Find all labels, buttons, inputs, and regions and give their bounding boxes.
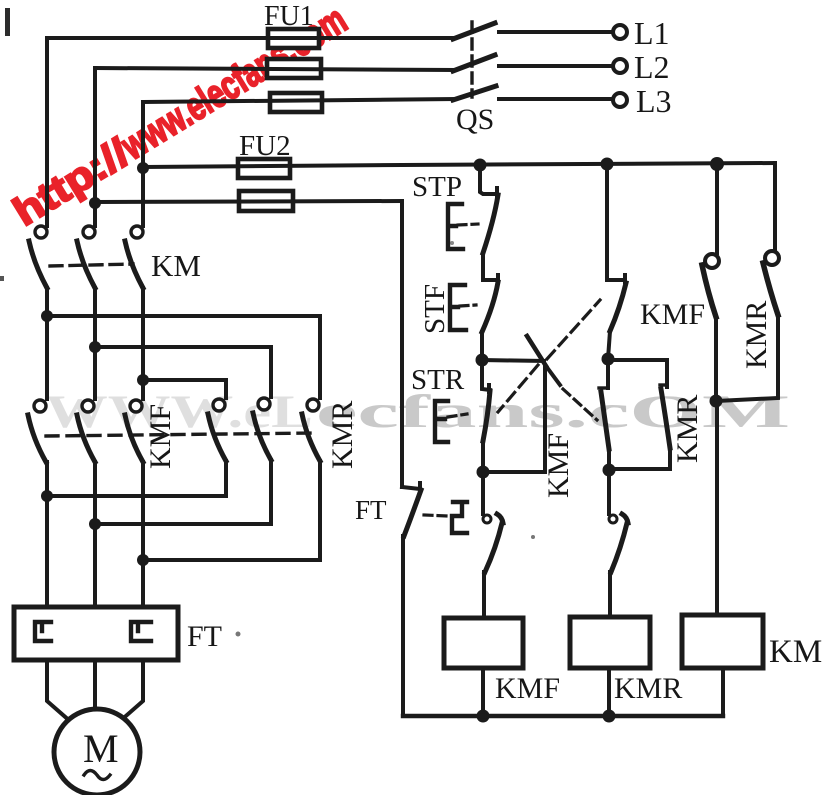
- svg-text:STF: STF: [419, 284, 451, 334]
- node join pole2: [89, 518, 101, 530]
- node B: [477, 466, 490, 479]
- contact branch B middle blade: [601, 392, 609, 449]
- contactor KM pole2 blade: [77, 241, 95, 288]
- wire STP to STF: [483, 253, 498, 282]
- switch QS blade 1: [453, 23, 495, 39]
- contactor KM pole2 terminal circle: [83, 226, 95, 238]
- switch QS blade 3: [453, 86, 496, 100]
- node bottom rail KMR: [603, 710, 616, 723]
- wire KMF pole1 down: [45, 462, 49, 607]
- wire node A to KMF aux branch: [482, 360, 544, 361]
- node rail branch B: [601, 158, 614, 171]
- contact branch B middle tick: [599, 386, 607, 389]
- contact KMF tall blade: [702, 265, 716, 317]
- motor M circle: [54, 709, 140, 795]
- wire KMR pole1 join: [47, 461, 226, 496]
- button STR linkage dashed: [448, 414, 467, 417]
- wire interlock to coil KMR: [608, 572, 612, 617]
- wire rail to STP: [480, 165, 497, 196]
- wire node C middle contact: [606, 359, 610, 388]
- contact FT control hook: [402, 483, 420, 489]
- svg-text:FU1: FU1: [264, 1, 314, 32]
- wire node D to KMF interlock: [607, 470, 611, 514]
- wire branch B to node C: [608, 331, 610, 359]
- contactor KMR pole3 circle: [307, 399, 319, 411]
- svg-text:http://: http://: [6, 131, 137, 235]
- contact KMR aux tick: [660, 383, 667, 386]
- switch QS linkage dashed: [470, 22, 473, 97]
- fuse FU1c body: [270, 93, 322, 112]
- wire rail to branch B contact: [607, 164, 625, 282]
- svg-text:KMR: KMR: [614, 672, 682, 705]
- svg-text:KMR: KMR: [671, 395, 704, 463]
- wire phase3 KM to KMF pole3: [141, 288, 145, 399]
- node join pole3: [137, 554, 149, 566]
- svg-text:KM: KM: [151, 248, 201, 283]
- scan speck above QS: [450, 241, 454, 245]
- svg-text:M: M: [83, 726, 119, 771]
- wire QS to terminal L3: [499, 97, 612, 101]
- switch QS blade 2: [453, 55, 495, 71]
- wire phase3 vertical drop: [141, 102, 145, 226]
- svg-text:FU2: FU2: [239, 130, 291, 162]
- contact KMF interlock blade: [611, 514, 628, 572]
- coil KMF box: [444, 618, 523, 668]
- wire FT to motor 2: [93, 660, 97, 710]
- terminal L1 circle: [613, 25, 627, 39]
- contact FT control blade: [404, 490, 421, 536]
- wire KMR tall to node E: [716, 315, 778, 401]
- wire KMF tall to node E: [714, 317, 718, 401]
- contact KMF tall circle: [705, 254, 719, 268]
- wire control return from phase2 tap through FU2b: [95, 201, 402, 202]
- wire coil KM to bottom rail: [721, 668, 725, 716]
- contact KMF interlock circle: [609, 515, 617, 523]
- wire node B down to interlock: [481, 472, 485, 514]
- node tap phase2: [89, 197, 101, 209]
- wire phase L3 row through FU1c: [143, 99, 455, 102]
- wire KMR aux bottom: [609, 448, 670, 469]
- contactor KMR pole1 circle: [213, 399, 225, 411]
- wire FT to motor 3: [119, 660, 143, 722]
- contact KMR aux blade: [661, 389, 670, 448]
- wire phase1 vertical drop: [45, 38, 49, 226]
- thermal relay FT heater 1: [35, 622, 51, 641]
- svg-text:QS: QS: [456, 103, 494, 136]
- wire phase1 KM to KMF pole1: [45, 288, 49, 399]
- linkage dashed continuation lower right: [563, 389, 597, 420]
- wire KMF pole3 down: [141, 462, 145, 607]
- wire crossover phase3 to KMR pole1: [143, 380, 226, 398]
- contact KMF aux blade: [527, 336, 546, 366]
- wire KMF pole2 down: [93, 462, 97, 607]
- linkage dashed X arm upper right: [547, 300, 600, 359]
- svg-text:L3: L3: [636, 83, 672, 119]
- contactor KMF KMR linkage dashed: [46, 433, 316, 436]
- thermal FT linkage dashed: [424, 515, 448, 516]
- node bottom rail KMF: [477, 710, 490, 723]
- thermal relay FT box: [14, 607, 178, 660]
- scan artifact left edge: [0, 276, 4, 281]
- contactor KM linkage dashed: [50, 264, 133, 266]
- button STF blade: [482, 282, 498, 332]
- node phase3 crossover: [137, 374, 149, 386]
- wire QS to terminal L1: [499, 30, 612, 34]
- wire phase L2 row through FU1b: [95, 68, 455, 70]
- svg-text:www.elecfans.com: www.elecfans.com: [113, 0, 354, 169]
- svg-text:KMR: KMR: [326, 401, 359, 469]
- contact KMR tall circle: [765, 251, 779, 265]
- button STP linkage dashed: [458, 224, 478, 225]
- contactor KMF pole1 blade: [28, 415, 46, 462]
- terminal L2 circle: [613, 59, 627, 73]
- svg-text:KM: KM: [769, 634, 822, 670]
- node phase1 crossover: [41, 310, 53, 322]
- node E: [710, 395, 723, 408]
- wire phase L1 row through FU1a: [47, 36, 455, 40]
- thermal FT actuator squiggle: [452, 502, 467, 533]
- contact KMR tall blade: [763, 263, 778, 315]
- wire phase2 vertical drop: [93, 68, 97, 226]
- wire node A to STR: [482, 360, 490, 392]
- svg-text:KMR: KMR: [740, 301, 773, 369]
- wire FT to motor 1: [47, 660, 71, 722]
- contactor KMF pole2 circle: [82, 400, 94, 412]
- contactor KM pole3 blade: [125, 241, 143, 288]
- svg-text:KMF: KMF: [144, 404, 177, 469]
- button STR blade: [483, 391, 490, 441]
- svg-text:STP: STP: [412, 171, 462, 203]
- node C: [602, 353, 615, 366]
- wire crossover phase2 to KMR pole2: [95, 347, 271, 397]
- svg-text:KMF: KMF: [640, 298, 705, 331]
- linkage solid X arm lower right: [546, 366, 560, 385]
- wire STR to node B: [481, 441, 485, 472]
- wire rail corner to contact KMR tall: [773, 163, 777, 251]
- terminal L3 circle: [613, 93, 627, 107]
- wire FT control down: [401, 536, 405, 716]
- button STP blade: [483, 195, 498, 253]
- wire coil KMR to bottom rail: [607, 668, 611, 716]
- scan artifact top-left: [5, 8, 10, 36]
- wire node E to coil KM: [715, 401, 719, 615]
- wire control left return vertical: [400, 201, 404, 487]
- svg-text:FT: FT: [187, 620, 222, 653]
- contactor KM pole1 blade: [29, 241, 47, 288]
- motor tilde: [84, 771, 110, 780]
- scan speck near FT label: [236, 632, 241, 637]
- wire phase2 KM to KMF pole2: [93, 288, 97, 399]
- contactor KM pole3 terminal circle: [131, 226, 143, 238]
- contactor KM pole1 terminal circle: [35, 226, 47, 238]
- fuse FU1b body: [267, 59, 321, 78]
- button STP actuator: [448, 204, 463, 249]
- button STF actuator: [450, 285, 466, 330]
- wire node C to KMR aux branch: [608, 360, 667, 387]
- contactor KMR pole2 blade: [253, 413, 271, 460]
- wire bottom rail: [403, 714, 723, 718]
- contact KMR interlock blade: [485, 514, 503, 572]
- wire KMF aux vertical: [543, 366, 547, 472]
- node rail KM branch: [710, 157, 724, 171]
- scan speck mid control: [531, 535, 535, 539]
- fuse FU2b body: [239, 191, 293, 211]
- svg-text:FT: FT: [355, 495, 387, 525]
- button STF linkage dashed: [460, 305, 476, 306]
- node phase2 crossover: [89, 341, 101, 353]
- contactor KMR pole2 circle: [258, 398, 270, 410]
- wire rail to contact KMF tall: [715, 164, 719, 253]
- node A: [476, 354, 489, 367]
- svg-text:STR: STR: [411, 364, 465, 396]
- contactor KMF pole2 blade: [77, 415, 95, 462]
- svg-text:KMF: KMF: [495, 672, 560, 705]
- node join pole1: [41, 490, 53, 502]
- node D: [603, 464, 616, 477]
- fuse FU1a body: [268, 29, 319, 48]
- coil KM box: [682, 615, 763, 668]
- node rail STP branch: [474, 159, 487, 172]
- fuse FU2a body: [238, 159, 290, 178]
- contactor KMF pole1 circle: [34, 400, 46, 412]
- contactor KMF pole3 blade: [125, 415, 143, 462]
- wire KMR pole3 join: [143, 461, 320, 560]
- node tap phase3: [137, 162, 149, 174]
- contactor KMF pole3 circle: [130, 400, 142, 412]
- linkage dashed X arm lower left: [498, 365, 538, 412]
- wire crossover phase1 to KMR pole3: [47, 316, 320, 398]
- contact KMR interlock circle: [483, 515, 491, 523]
- wire QS to terminal L2: [499, 64, 612, 68]
- svg-text:L1: L1: [634, 15, 670, 51]
- coil KMR box: [570, 617, 650, 668]
- button STR actuator: [435, 401, 448, 442]
- thermal relay FT heater 2: [131, 622, 151, 641]
- wire STF to node A: [480, 332, 484, 360]
- wire coil KMF to bottom rail: [481, 668, 485, 716]
- svg-text:L2: L2: [634, 49, 670, 85]
- wire interlock to coil KMF: [482, 572, 486, 618]
- wire KMR pole2 join: [95, 460, 271, 524]
- contact branch B upper blade: [610, 283, 626, 331]
- wire middle contact to node D: [607, 449, 611, 470]
- contactor KMR pole3 blade: [302, 414, 320, 461]
- watermark red url text: [6, 0, 355, 235]
- svg-text:KMF: KMF: [542, 433, 575, 498]
- wire control top rail from phase3 tap through FU2a: [143, 163, 775, 167]
- contactor KMR pole1 blade: [208, 414, 226, 461]
- wire KMF aux bottom to node B: [483, 470, 545, 474]
